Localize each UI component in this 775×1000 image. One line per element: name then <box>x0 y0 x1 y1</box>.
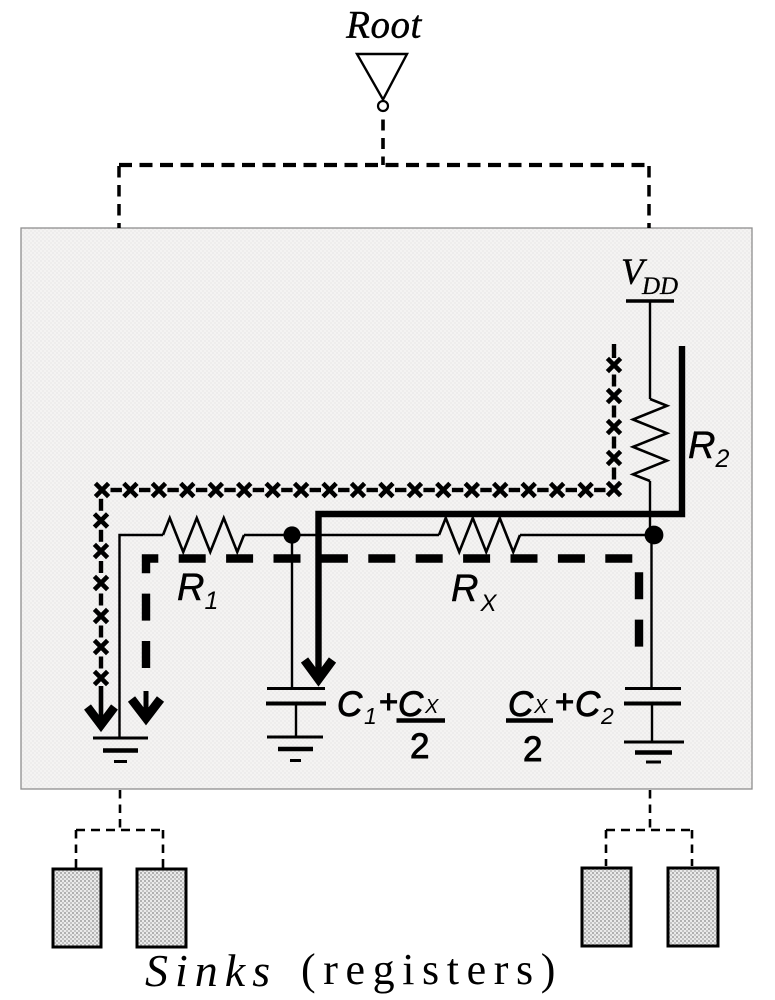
svg-text:C: C <box>337 685 363 724</box>
wire left stub corner to R1 <box>120 535 164 737</box>
wire RX to node B <box>520 534 654 536</box>
svg-text:1: 1 <box>364 703 377 729</box>
wire dashed sink tee left <box>76 829 164 832</box>
thick solid current path (via R2 branch) <box>319 346 683 676</box>
resistor R2 <box>633 399 667 481</box>
wire node A down to C1 <box>291 535 293 688</box>
wire dashed root net right drop <box>647 166 651 228</box>
power VDD rail bar <box>626 299 674 302</box>
svg-text:C: C <box>398 685 424 724</box>
svg-text:X: X <box>533 696 548 718</box>
wire C2 to ground <box>651 703 653 742</box>
sink register box 2 <box>137 869 186 947</box>
svg-text:+: + <box>555 683 574 720</box>
svg-text:2: 2 <box>600 703 614 729</box>
resistor R1 <box>163 518 244 552</box>
wire dashed root net horizontal trunk <box>119 163 649 167</box>
svg-text:C: C <box>575 685 601 724</box>
x-hatched clock path: right vertical (down from top) <box>612 344 616 358</box>
svg-text:DD: DD <box>641 273 678 300</box>
svg-text:X: X <box>424 696 439 718</box>
thick dashed path arrowhead <box>144 691 149 716</box>
wire node A to RX <box>292 534 439 536</box>
capacitor Cx/2+C2 top plate <box>625 687 681 690</box>
wire dashed sink tee right <box>606 829 692 832</box>
svg-text:Sinks: Sinks <box>145 945 277 996</box>
x-hatched clock path: left vertical with arrowhead <box>99 499 103 511</box>
thick dashed current path (via RX branch) <box>146 559 639 669</box>
svg-text:2: 2 <box>523 730 542 769</box>
wire dashed sink drop left <box>119 790 122 830</box>
svg-text:+: + <box>379 683 398 720</box>
wire dashed root net vertical from buffer <box>381 120 385 166</box>
svg-text:C: C <box>508 685 534 724</box>
svg-text:(registers): (registers) <box>301 945 563 994</box>
wire dashed sink drop right <box>649 790 652 830</box>
ground left (hatched+R1 return) <box>93 737 148 740</box>
ground under C2 <box>624 741 684 744</box>
capacitor Cx/2+C2 bottom plate <box>624 702 681 706</box>
capacitor C1+Cx/2 top plate <box>267 687 325 690</box>
x-hatched clock path: horizontal run <box>95 483 108 496</box>
svg-text:Root: Root <box>345 4 422 47</box>
thick solid path arrowhead <box>305 660 333 679</box>
wire R2 to node B <box>649 481 651 535</box>
ground under C1 <box>267 736 323 739</box>
wire R1 to node A <box>244 534 292 536</box>
node A junction dot <box>283 526 300 543</box>
svg-text:2: 2 <box>410 727 429 766</box>
resistor RX <box>439 518 520 552</box>
wire node B down to C2 <box>650 535 652 688</box>
sink register box 3 <box>582 868 631 946</box>
root buffer output bubble <box>378 101 388 111</box>
root buffer U1 (inverted triangle driver) <box>357 54 407 100</box>
sink register box 4 <box>668 868 718 946</box>
capacitor C1+Cx/2 bottom plate <box>266 702 326 706</box>
wire C1 to ground <box>295 703 297 737</box>
wire dashed root net left drop <box>117 166 121 228</box>
node B junction dot <box>645 526 664 545</box>
fraction bar of Cx/2 <box>397 718 446 723</box>
chip boundary box <box>21 228 752 789</box>
sink register box 1 <box>53 869 101 947</box>
wire VDD to R2 <box>649 301 651 399</box>
